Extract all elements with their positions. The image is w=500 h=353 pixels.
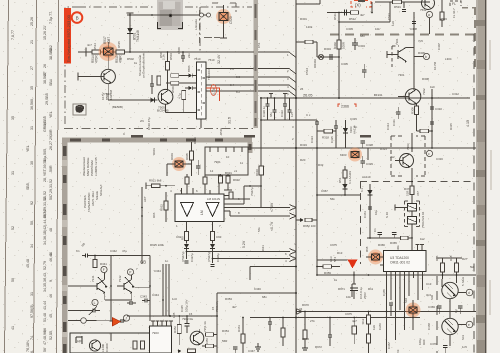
branch x=370 with diode and cap (369, 184, 371, 238)
dashed can around IF transformer (405, 201, 409, 227)
test point c (426, 150, 432, 156)
svg-text:10: 10 (226, 155, 230, 159)
svg-text:R51: R51 (338, 177, 342, 183)
svg-text:5.2V: 5.2V (242, 240, 246, 248)
red highlighted path from IC pin 8 (206, 88, 220, 101)
svg-text:b: b (425, 55, 427, 59)
wire top right corner y=2 (375, 1, 430, 3)
resistor pair right of bus bottom (303, 330, 307, 339)
resistor R506 to IC pin (171, 81, 179, 85)
svg-text:R361: R361 (237, 325, 241, 332)
vertical x=243 (242, 318, 244, 353)
trimmer 7902 (175, 161, 183, 167)
svg-text:(7N47µ): (7N47µ) (181, 251, 185, 262)
svg-text:32.4V: 32.4V (217, 54, 221, 64)
capacitor C503 (153, 73, 156, 75)
dash-dot border A right edge (199, 7, 201, 52)
svg-text:9,: 9, (49, 279, 53, 282)
svg-text:1R5: 1R5 (172, 312, 176, 318)
cap C923 (224, 185, 228, 187)
svg-text:10k: 10k (346, 295, 351, 299)
resistor R515 (116, 50, 124, 54)
stubs under IC2 outputs (186, 252, 188, 260)
svg-text:C975: C975 (330, 243, 337, 247)
hanging capacitor C320 (267, 98, 269, 104)
svg-text:GB: GB (140, 260, 146, 265)
svg-text:34: 34 (30, 244, 34, 248)
junction dots on rails (107, 14, 457, 318)
svg-text:C308: C308 (410, 27, 417, 31)
svg-text:7.5µ 77: 7.5µ 77 (49, 12, 53, 24)
rail y=317.5 right of IC (250, 317, 420, 319)
svg-text:C: C (123, 132, 125, 136)
svg-text:DR302: DR302 (313, 59, 317, 68)
svg-text:52,55,: 52,55, (49, 330, 53, 340)
svg-text:C327µ: C327µ (190, 253, 194, 262)
svg-text:SCHALT.: SCHALT. (99, 184, 103, 196)
parts right in box (133, 341, 137, 349)
svg-text:6.1: 6.1 (360, 188, 364, 192)
svg-text:C366: C366 (378, 323, 382, 330)
electrolytic C345 (185, 323, 190, 325)
svg-text:97,56(5): 97,56(5) (30, 305, 34, 318)
svg-text:34,35,36,43,: 34,35,36,43, (43, 272, 47, 292)
svg-text:C344: C344 (154, 269, 161, 273)
svg-text:22n: 22n (187, 53, 191, 58)
svg-text:56: 56 (43, 348, 47, 352)
svg-text:R68: R68 (365, 246, 369, 252)
svg-text:R531: R531 (394, 5, 401, 9)
Wiedereinsatz service note (82, 156, 98, 176)
IC left pin (380, 256, 384, 258)
svg-text:C973: C973 (302, 337, 309, 341)
resistor R514 (92, 50, 100, 54)
IC top pin stubs (181, 188, 183, 194)
svg-text:4.7µ: 4.7µ (178, 93, 182, 99)
connector resistor x=261 (259, 166, 263, 175)
svg-text:LUMPE 12 05: LUMPE 12 05 (94, 157, 98, 176)
svg-text:45,48: 45,48 (26, 259, 30, 268)
output A chain (186, 222, 188, 232)
svg-text:SB2: SB2 (49, 45, 53, 52)
red dashed spark-gap component (351, 1, 371, 8)
svg-text:1.2: 1.2 (230, 67, 234, 71)
feed resistors above y=275 rail (441, 263, 445, 272)
svg-text:R352: R352 (173, 326, 177, 333)
svg-text:R12: R12 (361, 318, 365, 324)
svg-text:R519: R519 (219, 128, 223, 135)
IC TDA1200 box (384, 251, 427, 272)
svg-text:4087: 4087 (107, 37, 111, 44)
emitter wire down to audio rail (107, 84, 109, 100)
audio IC box (175, 194, 224, 222)
svg-text:3.3: 3.3 (236, 75, 240, 79)
IC3 bottom pins (387, 272, 423, 279)
svg-text:27: 27 (43, 72, 47, 76)
hanging capacitor C321 (274, 98, 276, 110)
vertical feed x=261 (260, 98, 262, 207)
wire to triangle (317, 259, 348, 261)
svg-text:R308: R308 (422, 77, 429, 81)
svg-text:LM: LM (200, 210, 204, 215)
transistor 7351 (190, 331, 204, 345)
svg-text:68n: 68n (262, 295, 267, 299)
hanging capacitor C323 (289, 98, 291, 110)
svg-text:R11: R11 (368, 287, 373, 291)
supply branch x=345 (344, 166, 346, 195)
electrolytic at x=354 bottom (352, 326, 357, 334)
hanging capacitor C322 (284, 98, 286, 104)
svg-text:R931: R931 (225, 171, 232, 175)
transistor 7504 (101, 69, 115, 83)
collector resistor 2.2k (166, 62, 170, 71)
svg-text:7903.3A: 7903.3A (215, 301, 219, 312)
svg-text:120k: 120k (306, 25, 313, 29)
quartz trimmer (409, 307, 417, 313)
svg-text:C2: C2 (454, 309, 458, 313)
small resistor into bus y=220 (296, 219, 300, 221)
supply vertical x=339 (338, 13, 340, 99)
svg-text:R354: R354 (222, 329, 229, 333)
svg-text:27k: 27k (310, 319, 315, 323)
svg-text:26.05: 26.05 (303, 94, 313, 98)
tuning trimmer C520 (219, 13, 228, 21)
resistor R355 (206, 344, 214, 348)
gray dashed border B top (y=34) (330, 33, 476, 35)
resistor R905 vertical (190, 151, 194, 160)
svg-text:R910: R910 (255, 169, 259, 176)
svg-text:7302: 7302 (422, 88, 426, 95)
left input terminal wires of box A (78, 51, 86, 53)
C16 cluster box (353, 272, 355, 285)
svg-text:(X): (X) (355, 3, 361, 8)
svg-text:R306: R306 (418, 51, 425, 55)
svg-text:4n7: 4n7 (87, 43, 92, 47)
svg-text:C516: C516 (305, 67, 309, 75)
svg-text:SB5,: SB5, (26, 182, 30, 190)
test point F (101, 266, 107, 272)
svg-text:C312: C312 (452, 92, 459, 96)
svg-text:10µ: 10µ (374, 210, 378, 215)
IC right side wires (224, 198, 250, 200)
svg-text:C311: C311 (392, 119, 396, 126)
svg-text:7301: 7301 (395, 38, 399, 45)
wire y=12.5 feed (327, 12, 356, 14)
mixer transistor stage 1 (96, 283, 98, 290)
svg-text:R504: R504 (169, 53, 173, 60)
svg-text:LM 1011N: LM 1011N (207, 197, 220, 201)
capacitor C304 (352, 42, 358, 44)
top bus stubs (296, 3, 320, 5)
svg-text:R341: R341 (100, 262, 107, 266)
svg-text:C967: C967 (321, 189, 328, 193)
chevron connector on bus y=311.5 (297, 309, 303, 315)
orange highlight diode mod (368, 250, 383, 265)
svg-text:56R: 56R (222, 339, 227, 343)
dashed IF box (391, 136, 402, 176)
branch y=57 with plug (317, 56, 339, 58)
feed rail y=238 into IC (367, 237, 412, 239)
IF transformer S40 upper (408, 204, 417, 212)
svg-text:C506: C506 (177, 47, 181, 54)
transistor 7532 top edge (422, 0, 435, 10)
output B chain (212, 222, 214, 232)
svg-text:TDA1037: TDA1037 (207, 67, 211, 80)
test point d (466, 289, 473, 296)
bottom cap row (443, 345, 447, 347)
svg-text:SB4: SB4 (49, 79, 53, 86)
test point P (127, 269, 133, 275)
svg-text:Lötseite: Lötseite (194, 19, 198, 30)
svg-text:R515: R515 (117, 41, 121, 48)
cap C363 (378, 232, 383, 234)
terminal T-bar left end (85, 48, 87, 57)
svg-text:1n: 1n (165, 259, 169, 263)
svg-text:44: 44 (49, 252, 53, 256)
resistor R305 (305, 40, 313, 44)
orange highlight quartz (406, 303, 421, 318)
svg-text:68n: 68n (360, 34, 365, 38)
svg-text:48: 48 (49, 228, 53, 232)
svg-text:100µ 16V: 100µ 16V (185, 299, 189, 312)
svg-text:L304: L304 (445, 57, 452, 61)
svg-text:1N4148: 1N4148 (109, 89, 113, 100)
caps near x=330 bottom (328, 334, 332, 336)
mixer transistor stage 2 (123, 283, 125, 290)
svg-text:FL 10.7: FL 10.7 (452, 8, 456, 18)
wire trimmer to transistor 7504 (107, 55, 109, 70)
svg-text:7301: 7301 (398, 73, 405, 77)
svg-text:C346: C346 (254, 287, 261, 291)
resistor R922 vertical (164, 201, 168, 210)
orange highlight tuning element (216, 9, 231, 24)
op-amp A (181, 203, 194, 217)
dash-dot vertical near Loetseite (199, 10, 201, 44)
black dashed border vertical x=437 (bottom right) (436, 276, 438, 353)
svg-text:R315: R315 (449, 123, 453, 130)
diode B501 TM4148 (129, 13, 131, 52)
svg-text:L: L (94, 301, 96, 305)
svg-text:15: 15 (189, 312, 193, 316)
svg-text:C368: C368 (427, 323, 431, 330)
svg-text:C345: C345 (180, 305, 184, 312)
svg-text:10.7M: 10.7M (433, 61, 437, 70)
svg-text:C320 1n: C320 1n (262, 106, 266, 117)
svg-text:46: 46 (49, 294, 53, 298)
svg-text:7342: 7342 (118, 275, 122, 282)
capacitor on branch (329, 54, 331, 60)
micro labels around IC 7510 (169, 53, 201, 72)
gray dashed border B right corner (474, 7, 476, 70)
speckled border box C left bar (62, 138, 68, 353)
svg-text:68n: 68n (269, 112, 273, 117)
micro text labels top right (333, 5, 427, 150)
connector jack pair (200, 13, 204, 17)
feed resistors above IC (219, 176, 223, 183)
svg-text:1k0: 1k0 (430, 85, 435, 89)
emitter resistor R309 (416, 104, 418, 106)
cap row under rail y=317.5 (268, 321, 272, 323)
svg-text:R365: R365 (390, 241, 397, 245)
svg-text:FL: FL (452, 2, 456, 6)
svg-text:27: 27 (30, 66, 34, 70)
transistor 7505 BC548B (158, 89, 173, 104)
svg-text:45,: 45, (49, 313, 53, 318)
svg-text:5k6: 5k6 (470, 265, 475, 269)
test point b (423, 53, 429, 59)
svg-text:R318: R318 (322, 136, 329, 140)
svg-text:6303: 6303 (340, 153, 347, 157)
svg-text:C531: C531 (387, 13, 391, 20)
svg-text:C343: C343 (140, 295, 147, 299)
svg-text:0.7V: 0.7V (212, 87, 216, 95)
svg-text:30k: 30k (396, 245, 400, 250)
svg-text:S 40: S 40 (385, 212, 389, 218)
IC right pin wires to edge connectors (206, 68, 254, 70)
loudspeaker photo block (157, 0, 183, 30)
rail y=316 (127, 315, 217, 317)
svg-text:2366: 2366 (341, 105, 349, 109)
test point L (92, 299, 98, 305)
svg-text:HF: HF (77, 340, 82, 344)
svg-text:B: B (76, 15, 79, 20)
svg-text:C510 47µ: C510 47µ (147, 117, 151, 130)
emitter chain into IC (165, 104, 167, 112)
resistor R302 vertical (337, 40, 341, 49)
svg-text:C328µ: C328µ (216, 253, 220, 262)
svg-text:2k2: 2k2 (390, 155, 395, 159)
svg-text:15,26 21: 15,26 21 (43, 26, 47, 40)
cap C311 left of transistor (396, 111, 400, 113)
svg-text:R952 100: R952 100 (303, 224, 316, 228)
diode to IC pin (189, 73, 193, 77)
svg-text:C92: C92 (176, 235, 182, 239)
cap C343 (142, 300, 145, 302)
svg-text:26: 26 (300, 87, 304, 91)
svg-text:574: 574 (333, 257, 337, 262)
svg-text:C370: C370 (430, 342, 437, 346)
wire from border into stages (68, 285, 90, 287)
svg-text:Ton-Netzprint 5972-203 00: Ton-Netzprint 5972-203 00 (66, 14, 71, 62)
cap on pin wire (389, 302, 393, 304)
resistor R503 vertical (157, 76, 161, 85)
vertical x=317 (316, 148, 318, 220)
svg-text:R359: R359 (324, 271, 331, 275)
svg-text:C314: C314 (386, 123, 390, 130)
long rail y=148 (250, 147, 476, 149)
red board label Ton-Netzprint 5972-203 00 (64, 8, 71, 64)
ground tie wire y=120 (261, 119, 317, 121)
dash-dot border A bottom edge (64, 128, 253, 130)
svg-text:7510: 7510 (208, 58, 215, 62)
svg-text:4k7: 4k7 (232, 305, 237, 309)
svg-text:R922: R922 (160, 204, 164, 211)
svg-text:76,18¼: 76,18¼ (26, 339, 30, 352)
brand shield logo (73, 104, 86, 115)
svg-text:C322: C322 (280, 110, 284, 117)
svg-text:7901: 7901 (214, 160, 221, 164)
cap C325 (335, 120, 337, 126)
svg-text:d: d (468, 291, 470, 295)
caps beside detector (361, 140, 366, 142)
svg-text:U3 TDA1200: U3 TDA1200 (390, 256, 409, 260)
svg-text:R970: R970 (302, 303, 309, 307)
black dashed border vertical x=474 (473, 34, 475, 353)
svg-text:41: 41 (11, 326, 15, 330)
chevron wire y=216 (230, 215, 290, 217)
svg-text:<0.7V: <0.7V (270, 221, 274, 231)
IO rotated note column (83, 184, 103, 212)
svg-text:6.1 AA119: 6.1 AA119 (348, 170, 352, 184)
svg-text:C329: C329 (366, 162, 373, 166)
svg-text:C975: C975 (345, 312, 352, 316)
test point e (466, 321, 473, 328)
svg-text:R511: R511 (333, 13, 337, 20)
svg-text:1k0: 1k0 (372, 325, 376, 330)
rail y=275 (317, 274, 476, 276)
transistor 7302 (405, 89, 421, 105)
svg-text:R321: R321 (380, 147, 387, 151)
black dashed border vertical x=360 (360, 182, 362, 265)
red voltage 0.7V oval (211, 85, 217, 96)
input cap C341 (82, 255, 86, 257)
svg-text:R50: R50 (159, 52, 163, 58)
dash fragments near tuner (212, 2, 218, 4)
wire corner from C341 rail down (149, 256, 151, 322)
red bracket 2366 (338, 104, 356, 107)
svg-text:31,52: 31,52 (43, 191, 47, 200)
svg-text:S10: S10 (404, 297, 408, 303)
svg-text:7351 3A: 7351 3A (203, 321, 207, 332)
svg-text:<7.8V: <7.8V (270, 202, 274, 212)
svg-text:C367: C367 (387, 342, 391, 349)
wire y=195 (317, 194, 360, 196)
HF coil symbol (76, 336, 82, 344)
svg-text:31.5: 31.5 (228, 117, 232, 124)
svg-text:an Empfindlichkeit: an Empfindlichkeit (142, 53, 146, 78)
parts near x=235 bottom (233, 346, 237, 348)
orange highlight on detector (348, 148, 362, 162)
svg-text:YEL: YEL (49, 111, 53, 118)
svg-text:50,: 50, (30, 220, 34, 225)
wire y=293 to bus (217, 292, 296, 294)
svg-text:R904: R904 (193, 137, 197, 144)
svg-text:1k2: 1k2 (420, 237, 425, 241)
svg-text:3p3: 3p3 (426, 293, 431, 297)
svg-text:YEL: YEL (26, 145, 30, 152)
svg-text:C316: C316 (436, 157, 443, 161)
svg-text:C347: C347 (248, 349, 255, 353)
svg-text:R37: R37 (404, 187, 410, 191)
svg-text:R512: R512 (349, 17, 356, 21)
input resistor R921 (152, 184, 161, 188)
svg-text:26: 26 (43, 64, 47, 68)
cap pair lower (117, 320, 121, 322)
mid sub box (205, 147, 248, 175)
svg-text:31: 31 (11, 171, 15, 175)
svg-text:R20: R20 (300, 158, 306, 162)
capacitor C512 on feed (343, 10, 345, 16)
diode 6303 (345, 120, 347, 148)
svg-text:S41: S41 (461, 334, 465, 340)
svg-text:BC548B: BC548B (157, 109, 169, 113)
black dashed border (right block) at y=181 (360, 181, 474, 183)
svg-text:x1: x1 (234, 169, 237, 173)
caps row y=308 (437, 305, 441, 307)
svg-text:R63: R63 (396, 349, 400, 353)
svg-text:4.15: 4.15 (466, 120, 470, 127)
capacitor C506 (182, 52, 184, 56)
